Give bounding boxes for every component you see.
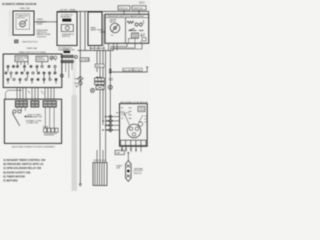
top bus wire L1 [57, 11, 149, 14]
black terminal bar in box B [62, 19, 71, 22]
unbalance switch sub-box [61, 25, 73, 32]
switch blade [12, 113, 19, 126]
small node circle [75, 56, 78, 59]
pump motor circle [110, 23, 120, 33]
harness connector block row 1 [95, 78, 105, 81]
box C corner rect [142, 38, 146, 42]
cam follower circles inside box D [50, 56, 53, 59]
harness arrow [96, 77, 102, 78]
bus jog below box D [6, 90, 44, 99]
terminal block [93, 163, 107, 186]
bracket label 1 above box C [118, 6, 130, 10]
box C inner drop wires [129, 39, 142, 44]
wire box A to box B [34, 21, 57, 23]
circle component with X [91, 89, 95, 93]
motor label ticks [129, 108, 132, 119]
motor start winding circle [138, 122, 142, 126]
relay contact K1 on center wire [78, 77, 82, 81]
divider in box C [125, 18, 127, 44]
harness verticals [96, 51, 98, 73]
connector group 1 [15, 101, 27, 107]
paper grain [0, 0, 1, 1]
resistor in box C [127, 21, 134, 23]
wire left of box C [103, 14, 105, 50]
vertical wire x85 [84, 11, 86, 50]
wire labels [123, 68, 133, 71]
timer motor symbol M1 [20, 21, 26, 27]
diamond connector 2 [105, 124, 120, 126]
motor big circle [127, 124, 141, 138]
timer contacts row 1 [7, 62, 56, 68]
bracket label 2 above box C [132, 6, 146, 10]
x ticks left of diamonds [106, 120, 108, 131]
component block cells [44, 128, 47, 132]
pressure switch box C [105, 14, 149, 43]
water temp inner box [15, 56, 28, 62]
box C misc ticks [128, 33, 144, 39]
relay contact K2 on center wire [78, 81, 82, 85]
motor right ticks [145, 116, 147, 122]
door box R [88, 12, 102, 46]
timer box D [3, 54, 62, 88]
junction dots on harness [102, 120, 103, 121]
wires below box R [91, 46, 99, 51]
arrow note in box F [25, 116, 32, 118]
harness plug label box [95, 64, 104, 67]
harness X box [96, 85, 104, 90]
wires below box C [109, 43, 143, 50]
labeled wire nodes [109, 69, 111, 71]
motor lead line [124, 113, 143, 126]
contact on box D right edge [60, 74, 63, 77]
wires below connector cluster [66, 63, 72, 78]
timer contacts row 2 [5, 68, 56, 75]
connector circles row 1 [61, 55, 74, 58]
legend icon [15, 40, 18, 43]
small label box [80, 58, 89, 62]
motor bottom connector row [121, 140, 147, 145]
diamond connector 1 [105, 120, 120, 122]
long vertical wire center [79, 11, 82, 184]
wires below motor box [97, 146, 141, 187]
connector circles row 2 [61, 60, 74, 63]
motor inner box [138, 106, 145, 111]
timer motor box A [13, 11, 34, 35]
tick bars left [76, 85, 78, 88]
switch contacts in box F [13, 110, 16, 113]
diamond connector 3 [105, 129, 120, 131]
contacts in box C [135, 23, 138, 26]
timer contacts row 3 [7, 74, 57, 84]
connector group 3 [43, 101, 56, 107]
small label box below motor [115, 150, 124, 154]
labeled wire to right [110, 67, 147, 72]
circle X on bus [108, 85, 112, 89]
motor box G [120, 104, 148, 147]
hticks on right bus [109, 79, 113, 81]
harness bus [78, 50, 114, 52]
wires box D to box F [17, 88, 54, 102]
lid switch box B [57, 12, 77, 46]
connector black bar [64, 51, 71, 53]
harness connector block row 2 [95, 82, 105, 85]
connector group 2 [31, 101, 39, 107]
scan shadow band left [9, 10, 12, 36]
x marks under motor box [121, 148, 132, 151]
capacitor [126, 161, 132, 182]
diamond connector 4 [105, 116, 120, 118]
speed inner box [36, 56, 48, 62]
scan shadow band [72, 95, 78, 191]
junction dots in box D [13, 66, 14, 67]
small relay box in box C [132, 33, 139, 38]
pushbutton box F [4, 99, 61, 143]
verticals in box F right [45, 107, 54, 128]
timer motor inner dashed box [16, 14, 30, 29]
